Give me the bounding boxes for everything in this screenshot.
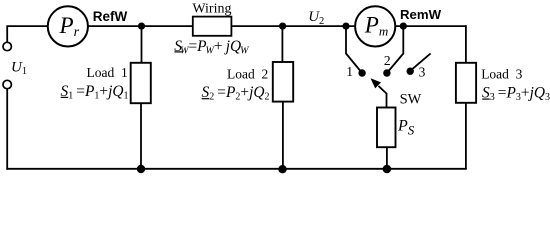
- resistor Load 2: [273, 62, 293, 102]
- svg-text:Load 1: Load 1: [87, 65, 128, 80]
- junction node at Load 1 bottom: [137, 165, 145, 173]
- underline of SW: [174, 51, 182, 53]
- wire right rail down to Load 3: [465, 25, 467, 63]
- svg-text:Load 3: Load 3: [481, 67, 522, 82]
- svg-text:SW: SW: [400, 92, 422, 108]
- switch contact 2: [383, 69, 390, 76]
- wire Pm to top-right corner: [396, 25, 466, 27]
- underline of S1: [61, 96, 68, 98]
- wire bottom rail: [6, 168, 466, 170]
- svg-text:1: 1: [346, 64, 353, 79]
- underline of S2: [202, 98, 210, 100]
- junction node at Ps bottom: [383, 165, 392, 174]
- resistor Load 3: [456, 63, 476, 103]
- junction node at Load 2 bottom: [278, 165, 286, 173]
- svg-text:2: 2: [384, 53, 391, 68]
- wire Load 2 top stub: [281, 26, 283, 62]
- wire Wiring box to Pm: [231, 25, 355, 27]
- wire left rail from bottom terminal down: [6, 89, 8, 170]
- wire Load 1 bottom stub: [140, 103, 142, 169]
- junction node at Load 2 top (U2): [279, 23, 286, 30]
- wire Load 2 bottom stub: [282, 102, 284, 169]
- wire Ps bottom stub: [386, 147, 388, 169]
- wire Pr to Wiring box: [88, 25, 193, 27]
- wire top-left from terminal U1 up and right to Pr: [7, 26, 47, 42]
- resistor Load 1: [131, 63, 151, 103]
- resistor Ps: [377, 108, 396, 148]
- meter Pr: [48, 6, 88, 46]
- junction node at Load 1 top: [138, 23, 145, 30]
- wire switch throw 2 from right node: [387, 26, 403, 73]
- underline of S3: [482, 98, 490, 100]
- svg-text:3: 3: [419, 65, 426, 80]
- wire Load 3 bottom to bottom rail: [465, 103, 467, 169]
- impedance box Wiring: [193, 17, 232, 36]
- junction node switch right: [400, 23, 407, 30]
- terminal lower U1: [3, 80, 11, 88]
- svg-text:RefW: RefW: [93, 9, 128, 24]
- switch contact 1: [358, 69, 365, 76]
- junction node switch left: [342, 23, 349, 30]
- wire switch throw 3 stub: [413, 53, 431, 68]
- terminal upper U1: [3, 42, 11, 50]
- meter Pm: [355, 6, 395, 46]
- svg-text:Load 2: Load 2: [227, 66, 268, 81]
- wire switch wiper shaft from Ps: [379, 86, 387, 108]
- svg-text:RemW: RemW: [400, 7, 442, 22]
- wire Load 1 top stub: [141, 26, 143, 63]
- wire switch throw 1 from left node: [346, 26, 362, 73]
- svg-text:Wiring: Wiring: [192, 1, 231, 16]
- switch SW wiper arrowhead: [371, 78, 382, 88]
- switch contact 3: [407, 68, 414, 75]
